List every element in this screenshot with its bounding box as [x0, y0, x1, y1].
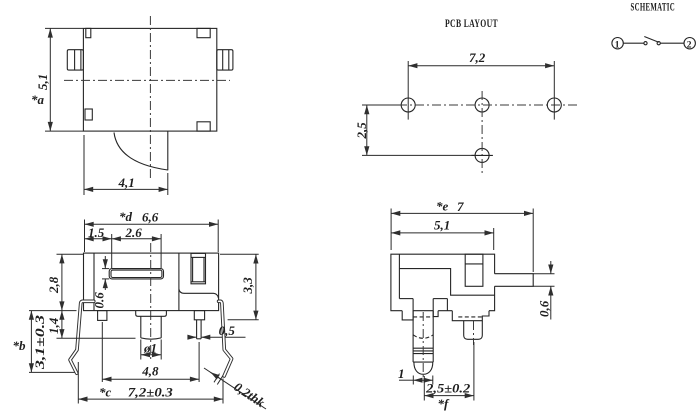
bottom protrusion lever arc — [114, 133, 168, 171]
slot inner — [111, 270, 162, 277]
terminal 2 circle — [684, 38, 695, 49]
switch lever — [644, 37, 658, 43]
dim *c dimension line — [78, 398, 223, 400]
dim *e 7 dimension line — [391, 212, 533, 214]
horizontal centerline — [64, 79, 230, 81]
svg-text:0.6: 0.6 — [92, 292, 107, 309]
front body inner left wall — [93, 253, 95, 311]
plunger dome — [414, 362, 433, 374]
dim 0,6 slot arrows — [104, 256, 106, 269]
right bent leg — [219, 301, 232, 376]
dim 7,2 extension lines — [407, 61, 409, 120]
plunger collar right block — [433, 311, 438, 317]
svg-text:2,5±0.2: 2,5±0.2 — [425, 381, 471, 396]
dim *e 7 extension lines — [390, 209, 392, 251]
top-left corner notch — [86, 28, 91, 37]
side right pin collar — [452, 311, 489, 321]
svg-text:ø1: ø1 — [143, 341, 157, 356]
left side tab — [67, 50, 83, 70]
dim *c extension lines — [77, 362, 79, 404]
plunger collar left block — [402, 311, 413, 320]
dim 1,4 extension line — [57, 337, 136, 339]
terminal 1 circle — [612, 38, 623, 49]
right side tab — [217, 50, 233, 70]
svg-text:4,8: 4,8 — [141, 364, 159, 379]
right thin pin — [196, 320, 198, 339]
dim 3,3 extension lines — [220, 253, 259, 255]
svg-text:*f: *f — [438, 396, 451, 411]
dim 2,8 extension line — [57, 253, 84, 255]
bottom hole horizontal tick — [471, 154, 493, 156]
svg-text:2,8: 2,8 — [46, 276, 61, 294]
dim 5,1 dimension line — [391, 232, 494, 234]
left contact — [644, 42, 647, 45]
dim 3,3 dimension line — [255, 254, 257, 319]
left bent leg — [70, 301, 94, 373]
dim 0,6 nozzle arrows — [550, 261, 552, 274]
thickness leader line — [204, 368, 266, 409]
svg-text:*e: *e — [436, 199, 449, 214]
side right pin hidden line — [458, 316, 482, 318]
side internal lower line — [399, 298, 413, 300]
front centerline — [150, 243, 152, 362]
side body outline — [391, 254, 495, 311]
wire from terminal 1 — [623, 42, 644, 44]
stem channel inner — [191, 256, 206, 258]
right contact — [657, 42, 660, 45]
svg-text:3,3: 3,3 — [240, 277, 255, 295]
dim *b 3,1±0,3 dimension line — [30, 311, 32, 373]
top view body outline — [83, 28, 216, 131]
svg-text:1: 1 — [398, 366, 405, 381]
svg-text:1,4: 1,4 — [46, 317, 61, 334]
dim 7,2 dimension line — [408, 65, 554, 67]
svg-text:5,1: 5,1 — [434, 218, 450, 233]
svg-text:SCHEMATIC: SCHEMATIC — [631, 2, 676, 14]
svg-text:*d: *d — [119, 209, 133, 224]
svg-text:4,1: 4,1 — [118, 175, 135, 190]
svg-text:2.6: 2.6 — [125, 225, 143, 240]
svg-text:2: 2 — [687, 40, 692, 50]
svg-text:PCB LAYOUT: PCB LAYOUT — [445, 18, 498, 30]
plunger rings — [413, 347, 433, 349]
hole left — [401, 98, 415, 112]
dim *b 3,1±0,3 extension line — [29, 371, 75, 373]
dim 0,5 lines — [188, 336, 197, 338]
svg-text:0,5: 0,5 — [219, 323, 236, 338]
dim 5,1 extension line — [493, 228, 495, 250]
dim ϕ1 arrows — [141, 354, 161, 356]
svg-text:2,5: 2,5 — [354, 122, 369, 140]
wire to terminal 2 — [660, 42, 684, 44]
plunger collar — [136, 311, 167, 317]
side inner left wall — [398, 254, 400, 298]
horizontal centerline through holes — [364, 104, 577, 106]
svg-text:7,2±0.3: 7,2±0.3 — [128, 385, 174, 400]
front body internal division — [178, 253, 180, 311]
svg-text:1.5: 1.5 — [88, 225, 105, 240]
stem channel outer — [191, 253, 206, 283]
bottom protrusion right edge — [167, 131, 169, 170]
plunger bottom arc — [141, 338, 161, 339]
svg-text:0,6: 0,6 — [537, 300, 552, 317]
hole middle — [475, 98, 489, 112]
plunger cylinder — [140, 316, 142, 338]
dim 1,4 dimension line — [61, 311, 63, 339]
bottom-left corner square — [85, 109, 92, 120]
right pin collar — [194, 311, 204, 320]
svg-text:7: 7 — [457, 199, 464, 214]
plunger end line — [413, 361, 433, 363]
vertical centerline — [149, 16, 151, 180]
dim 4,1 dimension line — [84, 188, 168, 190]
slot outer — [109, 269, 163, 279]
dim 0,6 slot extension stubs — [102, 268, 109, 270]
svg-text:*b: *b — [13, 338, 27, 353]
dim 2,5±0.2 dimension line — [424, 395, 474, 397]
nozzle bar — [495, 274, 534, 287]
dim 1 extension lines — [412, 376, 414, 385]
svg-text:1: 1 — [615, 40, 620, 50]
dim 2,5 extension lines — [362, 104, 401, 106]
dim 2,5 dimension line — [366, 105, 368, 155]
dim 2.6 dimension line — [112, 238, 161, 240]
side right pin centerline — [473, 321, 475, 345]
plunger shaft — [412, 299, 414, 363]
svg-text:*a: *a — [31, 92, 45, 107]
plunger centerline — [422, 312, 424, 380]
thickness double slash — [214, 374, 220, 383]
dim 4,8 dimension line — [102, 378, 199, 380]
svg-text:7,2: 7,2 — [469, 50, 486, 65]
dim a 5,1 extension lines — [45, 27, 83, 29]
dim ϕ1 extension lines — [140, 340, 142, 360]
dim 4,1 extension lines — [83, 135, 85, 195]
front body outline — [84, 253, 219, 311]
bottom-right corner notch — [197, 122, 210, 131]
svg-text:6,6: 6,6 — [142, 210, 159, 225]
left pin — [98, 311, 107, 321]
plunger hidden dome dashed arc — [413, 335, 433, 339]
hole right — [547, 98, 561, 112]
dim a 5,1 dimension line — [49, 28, 51, 131]
side right pin — [464, 321, 483, 340]
dim 2,5±0.2 extension lines — [423, 376, 425, 401]
plunger hidden line — [413, 316, 433, 318]
dim 0,6 nozzle extension lines — [533, 273, 554, 275]
side channel rect — [465, 254, 483, 286]
svg-text:3,1±0.3: 3,1±0.3 — [32, 314, 47, 370]
dim *d 6,6 dimension line — [85, 223, 219, 225]
dim 1.5 dimension line — [85, 238, 112, 240]
svg-text:5,1: 5,1 — [35, 74, 50, 90]
svg-text:*c: *c — [99, 385, 112, 400]
side internal step upper — [399, 269, 494, 296]
dim 1 dimension line — [399, 379, 413, 381]
dim *d 6,6 extension lines — [84, 220, 86, 253]
dim 2.6 extension lines — [111, 234, 113, 268]
vertical centerline through middle and bottom holes — [481, 91, 483, 173]
dim 4,8 extension lines — [101, 322, 103, 382]
top-right corner notch — [197, 28, 210, 37]
dim 2,8 dimension line — [61, 254, 63, 310]
hole bottom — [475, 148, 489, 162]
